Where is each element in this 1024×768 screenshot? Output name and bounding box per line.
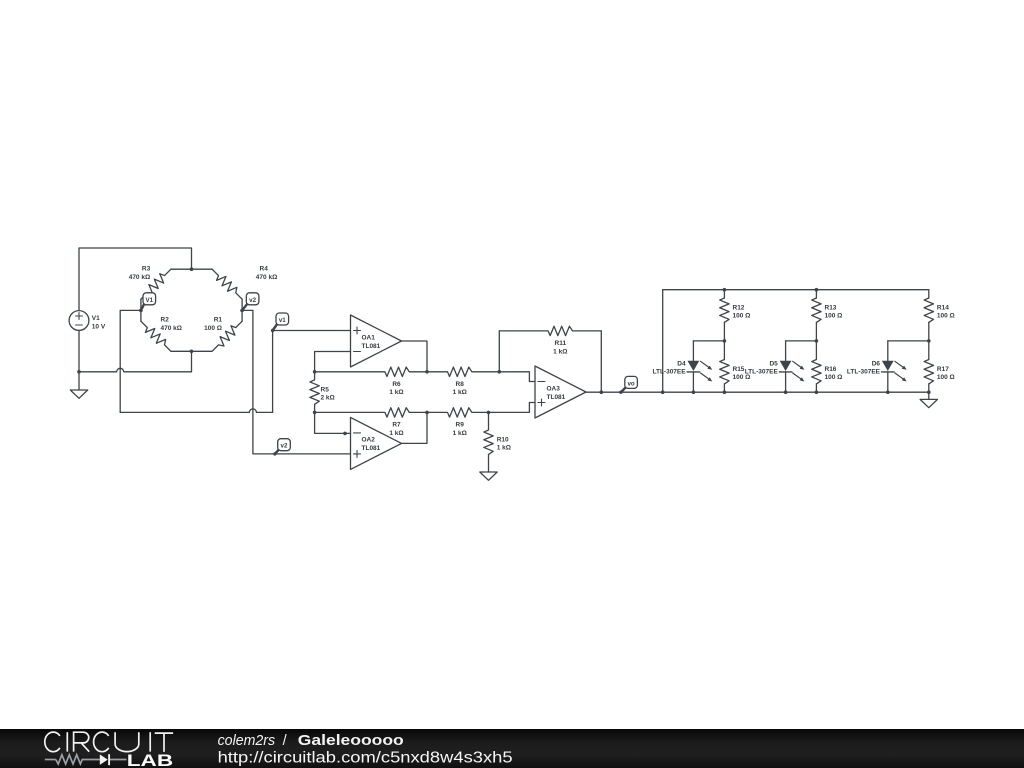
svg-text:R8: R8 xyxy=(456,381,465,388)
svg-text:R9: R9 xyxy=(456,422,465,429)
R12 value label xyxy=(733,305,751,320)
svg-text:OA2: OA2 xyxy=(362,437,376,444)
net flag vo xyxy=(619,376,637,394)
R10 value label xyxy=(497,437,511,452)
junction R5 top xyxy=(313,370,317,374)
svg-text:colem2rs: colem2rs xyxy=(218,733,276,749)
resistor R7 xyxy=(315,408,427,417)
wire LED array top bus xyxy=(663,289,929,291)
svg-text:100 Ω: 100 Ω xyxy=(825,374,843,381)
op-amp OA3 xyxy=(535,366,586,418)
wire OA1 output xyxy=(402,341,428,372)
resistor R17 xyxy=(924,341,933,392)
junction R9-R10 node xyxy=(487,411,491,415)
junction R16 bottom bus xyxy=(815,390,819,394)
op-amp OA2 xyxy=(351,417,402,469)
junction R8-R11 node xyxy=(498,370,502,374)
svg-text:Galeleooooo: Galeleooooo xyxy=(298,733,404,749)
OA1 label xyxy=(362,334,381,350)
svg-text:v2: v2 xyxy=(249,297,256,304)
svg-text:1 kΩ: 1 kΩ xyxy=(453,430,467,437)
junction D4 bottom bus xyxy=(692,390,696,394)
svg-text:R2: R2 xyxy=(161,317,170,324)
svg-text:http://circuitlab.com/c5nxd8w4: http://circuitlab.com/c5nxd8w4s3xh5 xyxy=(218,750,513,767)
svg-text:100 Ω: 100 Ω xyxy=(825,312,843,319)
wire D5 branch stub xyxy=(786,340,817,342)
svg-text:LTL-307EE: LTL-307EE xyxy=(745,369,779,376)
resistor R6 xyxy=(315,367,427,376)
svg-text:D4: D4 xyxy=(677,360,686,367)
OA2 label xyxy=(362,437,381,453)
R9 value label xyxy=(453,422,467,437)
svg-text:470 kΩ: 470 kΩ xyxy=(256,274,277,281)
junction bridge bottom node xyxy=(190,350,194,354)
svg-text:R7: R7 xyxy=(392,422,401,429)
resistor R16 xyxy=(812,341,821,392)
svg-text:R3: R3 xyxy=(142,266,151,273)
wire R8 node to OA3 - xyxy=(499,372,535,382)
svg-text:D6: D6 xyxy=(872,360,881,367)
resistor R9 xyxy=(427,408,489,417)
footer title colem2rs / Galeleooooo xyxy=(218,733,404,749)
net flag v2 at bridge xyxy=(240,293,258,312)
resistor R3 xyxy=(141,269,171,310)
net flag v1 at OA1 xyxy=(271,313,289,332)
svg-text:R14: R14 xyxy=(937,305,949,312)
R8 value label xyxy=(453,381,467,396)
wire D4 branch stub xyxy=(693,340,724,342)
junction R15 bottom bus xyxy=(723,390,727,394)
junction bridge top node xyxy=(190,267,194,271)
resistor R8 xyxy=(427,367,499,376)
svg-text:R5: R5 xyxy=(321,387,330,394)
R11 value label xyxy=(553,340,567,355)
wire OA2 output xyxy=(402,412,428,443)
R16 value label xyxy=(825,366,843,381)
net flag v2 at OA2 xyxy=(273,439,290,456)
voltage source V1 xyxy=(69,311,89,331)
svg-text:V1: V1 xyxy=(146,297,154,304)
resistor R10 xyxy=(484,412,493,472)
V1 value label xyxy=(92,315,106,330)
svg-text:1 kΩ: 1 kΩ xyxy=(553,348,567,355)
svg-text:470 kΩ: 470 kΩ xyxy=(129,274,150,281)
svg-text:1 kΩ: 1 kΩ xyxy=(389,389,403,396)
ground at V1 xyxy=(70,390,87,398)
bridge bottom rail xyxy=(171,350,212,352)
wire D6 branch stub xyxy=(888,340,929,342)
svg-text:OA1: OA1 xyxy=(362,334,376,341)
svg-text:R16: R16 xyxy=(825,366,837,373)
junction V1-ground wire xyxy=(77,370,81,374)
resistor R11 xyxy=(499,326,601,392)
junction R12 top bus xyxy=(723,288,727,292)
junction D6 bottom bus xyxy=(886,390,890,394)
wire R10 node to OA3 + xyxy=(489,403,536,413)
D5 value label xyxy=(745,360,779,375)
ground at LED array xyxy=(920,399,937,407)
D6 value label xyxy=(847,360,881,375)
R4 value label xyxy=(256,266,277,282)
svg-text:V1: V1 xyxy=(92,315,100,322)
R6 value label xyxy=(389,381,403,396)
svg-text:R1: R1 xyxy=(214,317,223,324)
wire bridge right node to OA2 + (v2 net) xyxy=(242,310,350,454)
svg-text:LTL-307EE: LTL-307EE xyxy=(652,369,686,376)
R15 value label xyxy=(733,366,751,381)
LED D4 xyxy=(687,341,712,392)
svg-text:v2: v2 xyxy=(281,443,288,450)
D4 value label xyxy=(652,360,686,375)
svg-text:1 kΩ: 1 kΩ xyxy=(453,389,467,396)
junction D5 bottom bus xyxy=(784,390,788,394)
junction R12-R15 node xyxy=(723,339,727,343)
op-amp OA1 xyxy=(351,315,402,367)
svg-text:TL081: TL081 xyxy=(362,343,381,350)
resistor R15 xyxy=(720,341,729,392)
svg-text:D5: D5 xyxy=(769,360,778,367)
logo CIRCUIT wordmark xyxy=(45,732,173,752)
junction OA2 output node xyxy=(425,411,429,415)
LED D5 xyxy=(779,341,804,392)
ground at R10 xyxy=(480,472,497,480)
svg-text:OA3: OA3 xyxy=(547,385,561,392)
svg-text:1 kΩ: 1 kΩ xyxy=(389,430,403,437)
svg-text:LTL-307EE: LTL-307EE xyxy=(847,369,881,376)
wire V1 bottom to ground xyxy=(78,330,80,390)
svg-text:R13: R13 xyxy=(825,305,837,312)
R3 value label xyxy=(129,266,151,282)
R2 value label xyxy=(161,317,182,333)
resistor R2 xyxy=(141,310,171,351)
svg-text:R4: R4 xyxy=(260,266,269,273)
junction R13 top bus xyxy=(815,288,819,292)
svg-text:100 Ω: 100 Ω xyxy=(937,312,955,319)
svg-text:TL081: TL081 xyxy=(362,445,381,452)
junction R5 bottom xyxy=(313,411,317,415)
R5 value label xyxy=(321,387,335,402)
junction bridge right node xyxy=(240,309,244,313)
wire LED array left riser xyxy=(662,290,664,393)
svg-text:100 Ω: 100 Ω xyxy=(204,325,222,332)
R1 value label xyxy=(204,317,222,333)
svg-text:1 kΩ: 1 kΩ xyxy=(497,444,511,451)
svg-text:100 Ω: 100 Ω xyxy=(733,312,751,319)
junction bridge left node xyxy=(139,309,143,313)
resistor R14 xyxy=(924,290,933,341)
svg-text:v1: v1 xyxy=(279,317,286,324)
resistor R1 xyxy=(212,310,242,351)
R17 value label xyxy=(937,366,955,381)
resistor R5 xyxy=(310,372,319,413)
wire bridge left node to OA1 + (v1 net) xyxy=(120,310,350,412)
junction R13-R16 node xyxy=(815,339,819,343)
svg-text:R15: R15 xyxy=(733,366,745,373)
junction R11 at output xyxy=(600,390,604,394)
wire V1 top to bridge top xyxy=(79,248,192,311)
resistor R4 xyxy=(212,269,242,310)
svg-text:vo: vo xyxy=(627,380,634,387)
R13 value label xyxy=(825,305,843,320)
wire OA1 - input xyxy=(315,352,351,372)
R7 value label xyxy=(389,422,403,437)
svg-text:470 kΩ: 470 kΩ xyxy=(161,325,182,332)
svg-text:TL081: TL081 xyxy=(547,394,566,401)
logo resistor-diode squiggle xyxy=(45,754,127,765)
resistor R13 xyxy=(812,290,821,341)
wire LED array bottom bus xyxy=(663,391,929,393)
wire bottom bus to ground xyxy=(928,392,930,399)
R14 value label xyxy=(937,305,955,320)
footer bar background xyxy=(0,729,1024,768)
svg-text:10 V: 10 V xyxy=(92,323,106,330)
junction OA1 output node xyxy=(425,370,429,374)
svg-text:100 Ω: 100 Ω xyxy=(937,374,955,381)
bridge top rail xyxy=(171,268,212,270)
svg-text:LAB: LAB xyxy=(127,751,173,768)
svg-text:R6: R6 xyxy=(392,381,401,388)
svg-text:R12: R12 xyxy=(733,305,745,312)
wire OA3 output (vo net) xyxy=(586,391,663,393)
svg-text:R11: R11 xyxy=(555,340,567,347)
svg-text:R10: R10 xyxy=(497,437,509,444)
svg-text:2 kΩ: 2 kΩ xyxy=(321,394,335,401)
junction R17 bottom bus xyxy=(927,390,931,394)
junction at OA2 - pin xyxy=(343,432,347,436)
resistor R12 xyxy=(720,290,729,341)
net flag V1 at bridge xyxy=(139,293,155,312)
OA3 label xyxy=(547,385,566,401)
junction R14-R17 node xyxy=(927,339,931,343)
junction output-left riser xyxy=(661,390,665,394)
LED D6 xyxy=(882,341,907,392)
wire V1 bottom to bridge bottom (hop over v1 riser) xyxy=(79,351,192,372)
svg-text:R17: R17 xyxy=(937,366,949,373)
wire OA2 - input xyxy=(315,412,351,433)
